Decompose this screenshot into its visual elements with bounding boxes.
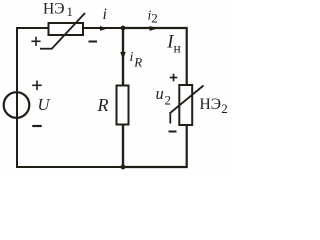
polarity - of НЭ2 <box>169 131 177 133</box>
svg-text:R: R <box>97 95 109 115</box>
НЭ2 diagonal foot <box>169 113 171 124</box>
svg-text:u: u <box>156 84 164 103</box>
НЭ1 diagonal stroke <box>52 13 85 49</box>
nonlinear element НЭ1 (varistor body) <box>49 23 84 35</box>
polarity + of НЭ1 <box>31 37 40 46</box>
svg-text:1: 1 <box>67 4 74 19</box>
wire: through voltage source U <box>16 92 18 118</box>
wire: НЭ1 right to node A <box>84 27 123 29</box>
svg-text:НЭ: НЭ <box>43 1 64 18</box>
НЭ1 diagonal foot <box>40 48 53 50</box>
svg-text:2: 2 <box>221 101 228 116</box>
svg-text:2: 2 <box>151 11 158 26</box>
svg-text:н: н <box>174 40 181 55</box>
wire: source top to НЭ1 left (top-left corner) <box>17 28 48 93</box>
svg-text:R: R <box>133 55 142 70</box>
wire: resistor R bottom to node B <box>122 126 124 168</box>
wire: node B to bottom-left corner to source bottom <box>17 117 123 167</box>
nonlinear element НЭ2 (varistor body) <box>179 85 192 125</box>
polarity - of source U <box>32 125 42 127</box>
polarity - of НЭ1 <box>89 41 98 43</box>
svg-text:U: U <box>38 95 51 114</box>
polarity + of source U <box>32 81 42 91</box>
node A (top junction) <box>121 26 126 31</box>
svg-text:НЭ: НЭ <box>200 96 221 113</box>
wire: НЭ2 bottom to bottom-right corner to node B <box>123 126 187 167</box>
voltage source U (circle) <box>4 92 30 118</box>
current arrow iR <box>120 52 126 60</box>
current arrow i2 <box>150 26 159 31</box>
wire: node A down to resistor R top <box>122 28 124 85</box>
svg-text:i: i <box>130 50 134 65</box>
wire: node A to top-right corner to НЭ2 top <box>123 28 187 85</box>
svg-text:i: i <box>103 6 107 23</box>
polarity + of НЭ2 <box>170 74 178 82</box>
НЭ2 diagonal stroke <box>170 86 204 114</box>
node B (bottom junction) <box>121 165 126 170</box>
svg-text:2: 2 <box>165 93 172 108</box>
current arrow i <box>100 26 108 31</box>
resistor R (body) <box>117 86 129 125</box>
